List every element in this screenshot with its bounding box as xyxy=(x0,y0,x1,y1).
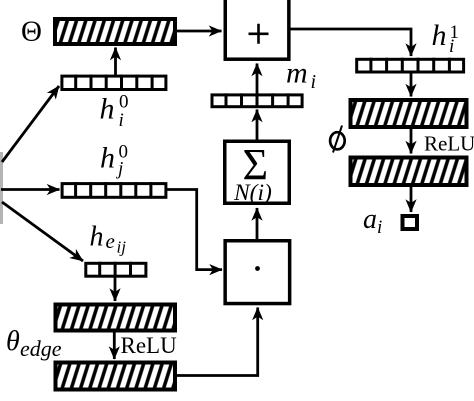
svg-text:h: h xyxy=(432,19,447,52)
weight matrix theta_edge layer 1 (hatched) xyxy=(56,305,176,331)
adder box + xyxy=(225,0,289,59)
vector h_i^0 xyxy=(62,75,166,91)
svg-text:N(i): N(i) xyxy=(233,180,272,206)
vector h_j^0 xyxy=(62,182,166,197)
svg-text:i: i xyxy=(377,217,382,238)
node bar (grey, clipped graph node at left edge) xyxy=(0,152,3,224)
wire: ReLU between theta_edge layers xyxy=(113,332,116,359)
wire: edge-to-h_e_ij diagonal arrow xyxy=(2,202,83,261)
svg-text:i: i xyxy=(311,71,317,93)
svg-text:h: h xyxy=(90,222,104,253)
wire: sum box up to m_i xyxy=(256,110,259,140)
weight matrix Theta (hatched) xyxy=(55,19,175,44)
wire: m_i up to plus box xyxy=(256,64,259,95)
wire: plus box to h_i^1 xyxy=(291,29,412,56)
svg-text:a: a xyxy=(363,204,377,235)
wire: edge-to-h_j^0 horizontal arrow xyxy=(1,188,60,191)
svg-text:Θ: Θ xyxy=(21,16,42,48)
wire: theta_edge output to dot-product box xyxy=(176,308,258,376)
svg-text:e: e xyxy=(106,229,115,253)
wire: ReLU between phi layers xyxy=(410,129,413,154)
wire: h_i^1 down to phi layer 1 xyxy=(410,74,413,97)
svg-text:i: i xyxy=(119,110,124,131)
wire: edge-to-h_i^0 diagonal arrow xyxy=(2,86,59,162)
svg-text:ReLU: ReLU xyxy=(424,132,474,156)
wire: dot box up to sum box xyxy=(256,208,259,239)
scalar box a_i xyxy=(403,216,418,229)
svg-text:ReLU: ReLU xyxy=(121,333,178,358)
svg-text:θ: θ xyxy=(6,326,20,357)
weight matrix phi layer 2 (hatched) xyxy=(351,158,467,186)
wire: phi output to a_i xyxy=(410,187,413,212)
aggregation box Sigma N(i) xyxy=(225,140,290,206)
vector h_i^1 xyxy=(357,58,464,74)
label h_e_ij xyxy=(90,222,127,257)
label h_i^1 xyxy=(432,19,460,57)
svg-text:h: h xyxy=(100,141,115,174)
vector h_e_ij xyxy=(86,262,146,276)
weight matrix phi layer 1 (hatched) xyxy=(351,100,467,127)
label theta_edge xyxy=(6,326,62,361)
label a_i xyxy=(363,204,382,238)
label phi xyxy=(330,126,345,153)
label h_i^0 xyxy=(100,92,129,132)
wire: h_i^0 up to Theta xyxy=(114,48,117,77)
weight matrix theta_edge layer 2 (hatched) xyxy=(56,363,176,390)
vector m_i xyxy=(212,93,302,107)
svg-text:m: m xyxy=(286,57,308,90)
svg-text:h: h xyxy=(100,93,115,126)
label h_j^0 xyxy=(100,141,128,179)
svg-text:i: i xyxy=(449,36,454,57)
multiplier box (dot) xyxy=(225,241,290,304)
label m_i xyxy=(286,57,316,93)
svg-text:edge: edge xyxy=(20,336,62,361)
wire: h_e_ij down to theta_edge layer 1 xyxy=(114,276,117,301)
svg-text:ij: ij xyxy=(117,238,127,257)
wire: Theta to plus box xyxy=(176,30,222,33)
wire: h_j^0 to dot-product box xyxy=(166,190,222,270)
